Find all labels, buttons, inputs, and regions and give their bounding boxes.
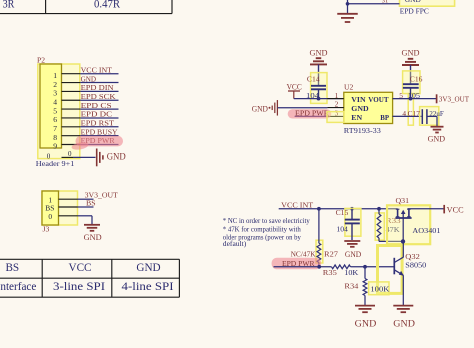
label GND below Q32 xyxy=(393,320,415,330)
power port 3V3_OUT xyxy=(437,94,470,103)
pin 6 of P2 xyxy=(53,115,80,124)
designator C17 xyxy=(408,109,421,118)
label GND below R34 xyxy=(355,320,377,330)
svg-text:GND: GND xyxy=(81,74,97,83)
power port GND (bar style, at U2 pin 2) xyxy=(252,100,278,116)
wire R33 to gate junction xyxy=(379,240,403,242)
net label EPD_RST xyxy=(81,119,115,128)
transistor Q31 (P-MOSFET) xyxy=(395,209,411,241)
wire P2 pin 8 xyxy=(80,135,118,137)
wire C17 to ground xyxy=(427,116,437,126)
svg-text:VCC INT: VCC INT xyxy=(81,65,113,74)
svg-text:3: 3 xyxy=(53,89,57,98)
node junction R27/VCC_INT xyxy=(317,207,321,211)
pin number 31 (EPD FPC, clipped) xyxy=(382,0,389,4)
wire VCC to U2 VIN xyxy=(294,98,344,100)
designator P2 xyxy=(37,56,45,65)
pin 4 of U2 xyxy=(393,109,409,118)
node junction C15/VCC_INT xyxy=(350,207,354,211)
wire R35 to Q32 base xyxy=(351,266,394,268)
pin name GND (U2) xyxy=(351,104,369,113)
svg-text:GND: GND xyxy=(107,151,126,161)
transistor Q31 selection box xyxy=(387,205,430,244)
wire GND port to U2 pin 2 xyxy=(278,107,328,109)
label EPD FPC xyxy=(400,6,429,15)
pin name BP xyxy=(380,113,389,122)
node junction gate/R33/Q32 collector xyxy=(401,239,405,243)
net label EPD_PWR (U2 EN) xyxy=(295,108,330,117)
label GND at P2 pin 0 xyxy=(107,151,126,161)
svg-text:BS: BS xyxy=(86,199,96,208)
wire U2 VOUT to 3V3_OUT xyxy=(393,98,437,100)
svg-text:Interface: Interface xyxy=(0,281,36,293)
wire P2 pin 5 xyxy=(80,108,118,110)
svg-text:2: 2 xyxy=(335,100,339,109)
comment RT9193-33 xyxy=(344,126,381,135)
svg-text:9: 9 xyxy=(53,142,57,151)
svg-text:8: 8 xyxy=(53,133,57,142)
svg-text:J3: J3 xyxy=(43,225,50,234)
svg-text:C15: C15 xyxy=(336,208,349,217)
designator Q32 xyxy=(405,252,420,261)
wire P2 pin 3 xyxy=(80,90,118,92)
note text xyxy=(223,216,310,248)
value 105 (C16) xyxy=(408,91,421,100)
designator U2 xyxy=(344,82,353,91)
pin 2 of U2 xyxy=(327,100,343,109)
svg-text:1: 1 xyxy=(53,71,57,80)
pin 7 of P2 xyxy=(53,124,80,133)
svg-text:NC/47K: NC/47K xyxy=(291,250,316,259)
wire J3 pin1 xyxy=(78,198,94,200)
value 104 (C15) xyxy=(336,225,348,234)
label GND below J3 xyxy=(84,232,102,242)
highlight EPD_PWR (R27 node) xyxy=(272,258,322,270)
svg-text:GND: GND xyxy=(351,104,369,113)
pin 2 of P2 xyxy=(53,80,80,89)
svg-text:EPD DIN: EPD DIN xyxy=(81,83,114,92)
svg-text:EN: EN xyxy=(351,113,362,122)
svg-text:VIN: VIN xyxy=(351,95,366,104)
svg-text:GND: GND xyxy=(428,133,446,143)
svg-text:GND: GND xyxy=(405,0,422,4)
ground (C15) xyxy=(344,241,360,247)
pin 5 of P2 xyxy=(53,106,80,115)
svg-text:RT9193-33: RT9193-33 xyxy=(344,126,381,135)
connector P2 body xyxy=(40,64,62,148)
comment Header 9+1 xyxy=(36,159,75,168)
resistor R35 xyxy=(332,265,351,269)
svg-text:VOUT: VOUT xyxy=(368,95,389,104)
comment AO3401 xyxy=(412,226,440,235)
svg-text:S8050: S8050 xyxy=(405,261,426,270)
ground (J3) xyxy=(84,225,100,231)
svg-text:2: 2 xyxy=(53,80,57,89)
value 22uF (C17) xyxy=(429,109,443,118)
svg-text:EPD PWR: EPD PWR xyxy=(295,108,330,117)
svg-text:4-line SPI: 4-line SPI xyxy=(122,281,174,293)
svg-text:VCC INT: VCC INT xyxy=(281,200,313,209)
svg-text:6: 6 xyxy=(53,115,57,124)
svg-text:4: 4 xyxy=(53,97,57,106)
svg-text:3V3_OUT: 3V3_OUT xyxy=(439,95,470,104)
label GND above C16 xyxy=(402,47,420,57)
capacitor C16 xyxy=(403,84,419,98)
wire P2 pin 9 xyxy=(80,144,118,146)
svg-text:VCC: VCC xyxy=(68,262,91,274)
value 10K (R35) xyxy=(344,268,359,277)
pin name GND (EPD FPC pin, clipped) xyxy=(405,0,422,4)
capacitor C15 selection box xyxy=(345,208,361,236)
svg-text:0.47R: 0.47R xyxy=(94,0,120,10)
pin 1 of U2 xyxy=(327,91,343,100)
svg-text:C14: C14 xyxy=(307,75,320,84)
connector P2 selection box xyxy=(38,64,80,159)
wire P2 pin 7 xyxy=(80,126,118,128)
designator R35 xyxy=(323,268,337,277)
highlight EPD_PWR (P2 pin 9) xyxy=(71,136,123,151)
designator R34 xyxy=(344,281,358,290)
svg-text:EPD FPC: EPD FPC xyxy=(400,6,429,15)
resistor R27 selection box xyxy=(316,240,323,263)
pin 1 of J3 xyxy=(48,195,77,204)
wire P2 pin 2 xyxy=(80,82,118,84)
svg-text:100K: 100K xyxy=(370,285,390,294)
value 47K (R33) xyxy=(386,225,401,234)
wire P2 pin 6 xyxy=(80,117,118,119)
node junction R34/base xyxy=(363,265,367,269)
pin 9 of P2 xyxy=(53,142,80,151)
svg-text:BS: BS xyxy=(5,262,19,274)
connector J3 body xyxy=(42,191,59,225)
wire P2 pin 4 xyxy=(80,99,118,101)
svg-text:104: 104 xyxy=(336,225,348,234)
power port VCC (input) xyxy=(287,83,303,99)
designator C15 xyxy=(336,208,349,217)
svg-text:EPD RST: EPD RST xyxy=(81,119,115,128)
resistor R33 xyxy=(377,209,381,242)
net label EPD_PWR xyxy=(81,136,116,145)
ground above C14 xyxy=(310,58,327,86)
label GND below C17 xyxy=(428,133,446,143)
svg-text:R27: R27 xyxy=(324,250,338,259)
resistor R33 selection box xyxy=(375,213,384,240)
transistor Q32 selection box xyxy=(378,246,403,294)
resistor R34 xyxy=(363,267,367,305)
svg-text:GND: GND xyxy=(402,47,420,57)
svg-text:EPD DC: EPD DC xyxy=(81,110,113,119)
node junction C14/VIN xyxy=(317,97,321,101)
pin name VOUT xyxy=(368,95,389,104)
svg-text:GND: GND xyxy=(252,103,268,113)
capacitor C17 selection box xyxy=(420,107,439,126)
net label BS xyxy=(86,199,96,208)
svg-text:0: 0 xyxy=(48,212,52,221)
svg-text:0: 0 xyxy=(68,150,72,158)
node junction R27/R35 xyxy=(317,265,321,269)
designator J3 xyxy=(43,225,50,234)
net label GND xyxy=(81,74,97,83)
pin 3 of J3 (0) xyxy=(48,212,77,221)
svg-text:GND: GND xyxy=(345,250,361,259)
wire VCC_INT rail xyxy=(279,208,398,210)
wire J3 pin3 to ground xyxy=(78,216,93,225)
capacitor C17 xyxy=(422,109,427,124)
value 100K (R34) xyxy=(370,285,390,294)
pin 0 of P2 xyxy=(47,150,73,161)
net label EPD_SCK xyxy=(81,92,116,101)
label GND above C14 xyxy=(310,47,328,57)
ground (Q32 emitter) xyxy=(393,306,413,313)
svg-text:AO3401: AO3401 xyxy=(412,226,440,235)
svg-text:EPD SCK: EPD SCK xyxy=(81,92,116,101)
comment S8050 xyxy=(405,261,426,270)
pin 4 of P2 xyxy=(53,97,80,106)
designator Q31 xyxy=(396,196,410,205)
ground (P2 pin 0) xyxy=(97,149,103,167)
svg-text:GND: GND xyxy=(84,232,102,242)
connector J3 selection box xyxy=(42,191,78,225)
net label EPD_CS xyxy=(81,101,112,110)
op-amp U2 body (RT9193-33 regulator) xyxy=(344,92,393,123)
value 104 (C14) xyxy=(306,91,319,100)
capacitor C15 xyxy=(345,209,360,240)
svg-text:U2: U2 xyxy=(344,82,353,91)
pin name EN xyxy=(351,113,362,122)
svg-text:GND: GND xyxy=(355,320,377,330)
svg-text:P2: P2 xyxy=(37,56,45,65)
svg-text:GND: GND xyxy=(136,262,160,274)
pin 3 of U2 xyxy=(327,109,343,118)
label GND below C15 xyxy=(345,250,361,259)
net label 3V3_OUT (J3) xyxy=(85,191,118,200)
capacitor C16 selection box xyxy=(403,71,420,125)
pin name VIN xyxy=(351,95,366,104)
svg-text:R35: R35 xyxy=(323,268,337,277)
pin 1 of P2 xyxy=(53,71,80,80)
wire P2 pin 1 xyxy=(80,73,118,75)
transistor Q32 (NPN S8050) xyxy=(394,241,404,305)
designator R27 xyxy=(324,250,338,259)
capacitor C14 xyxy=(311,86,326,99)
net label EPD_PWR (lower) xyxy=(282,259,315,268)
wire EPD_PWR to U2 EN xyxy=(295,115,328,117)
svg-text:10K: 10K xyxy=(344,268,359,277)
svg-text:5: 5 xyxy=(53,106,57,115)
svg-text:C17: C17 xyxy=(408,109,421,118)
wire J3 pin2 xyxy=(78,206,94,208)
svg-text:7: 7 xyxy=(53,124,57,133)
svg-text:Q31: Q31 xyxy=(396,196,410,205)
connector EPD FPC selection box (clipped) xyxy=(400,0,455,6)
ground (C17) xyxy=(431,127,444,133)
svg-text:3-line SPI: 3-line SPI xyxy=(53,281,105,293)
net label VCC_INT xyxy=(281,200,313,209)
node junction R33/VCC_INT xyxy=(377,207,381,211)
designator C16 xyxy=(410,75,423,84)
wire U2 BP to C17 xyxy=(393,115,423,117)
pin 5 of U2 xyxy=(393,91,409,100)
pin 8 of P2 xyxy=(53,133,80,142)
svg-text:R34: R34 xyxy=(344,281,358,290)
value 100K selection box xyxy=(369,282,389,295)
ground above C16 xyxy=(402,59,419,84)
svg-text:C16: C16 xyxy=(410,75,423,84)
ground (R34) xyxy=(355,306,375,313)
wire P2 pin 0 to ground xyxy=(73,156,96,158)
capacitor C14 selection box xyxy=(311,73,327,104)
svg-text:GND: GND xyxy=(310,47,328,57)
value NC/47K (R27) xyxy=(291,250,316,259)
designator R33 xyxy=(386,216,401,225)
power port VCC (right) xyxy=(444,205,464,215)
designator C14 xyxy=(307,75,320,84)
svg-text:Header 9+1: Header 9+1 xyxy=(36,159,75,168)
wire Q31 source to VCC xyxy=(408,208,445,210)
pin 3 of P2 xyxy=(53,89,80,98)
svg-text:VCC: VCC xyxy=(447,205,464,215)
table top-left resistance table xyxy=(0,0,172,14)
net label EPD_DIN xyxy=(81,83,114,92)
net label EPD_BUSY xyxy=(81,127,118,136)
resistor R27 xyxy=(317,209,321,267)
svg-text:EPD BUSY: EPD BUSY xyxy=(81,127,118,136)
wire to EPD FPC GND pin xyxy=(348,0,400,4)
net label VCC_INT xyxy=(81,65,113,74)
svg-text:default): default) xyxy=(223,239,247,248)
highlight EPD_PWR (U2 EN) xyxy=(288,109,332,118)
svg-text:BP: BP xyxy=(380,113,389,122)
node junction C16/VOUT xyxy=(409,97,413,101)
svg-text:GND: GND xyxy=(393,320,415,330)
table BS interface xyxy=(0,259,179,297)
node junction at EPD FPC ground xyxy=(346,2,350,6)
svg-text:1: 1 xyxy=(335,91,339,100)
net label EPD_DC xyxy=(81,110,113,119)
wire EPD_PWR node xyxy=(274,266,332,268)
ground (EPD FPC) xyxy=(337,4,358,22)
svg-text:3R: 3R xyxy=(3,0,15,10)
pin 2 of J3 (BS) xyxy=(45,204,77,213)
selection box U2 EN pin xyxy=(327,112,344,123)
svg-text:EPD CS: EPD CS xyxy=(81,101,112,110)
